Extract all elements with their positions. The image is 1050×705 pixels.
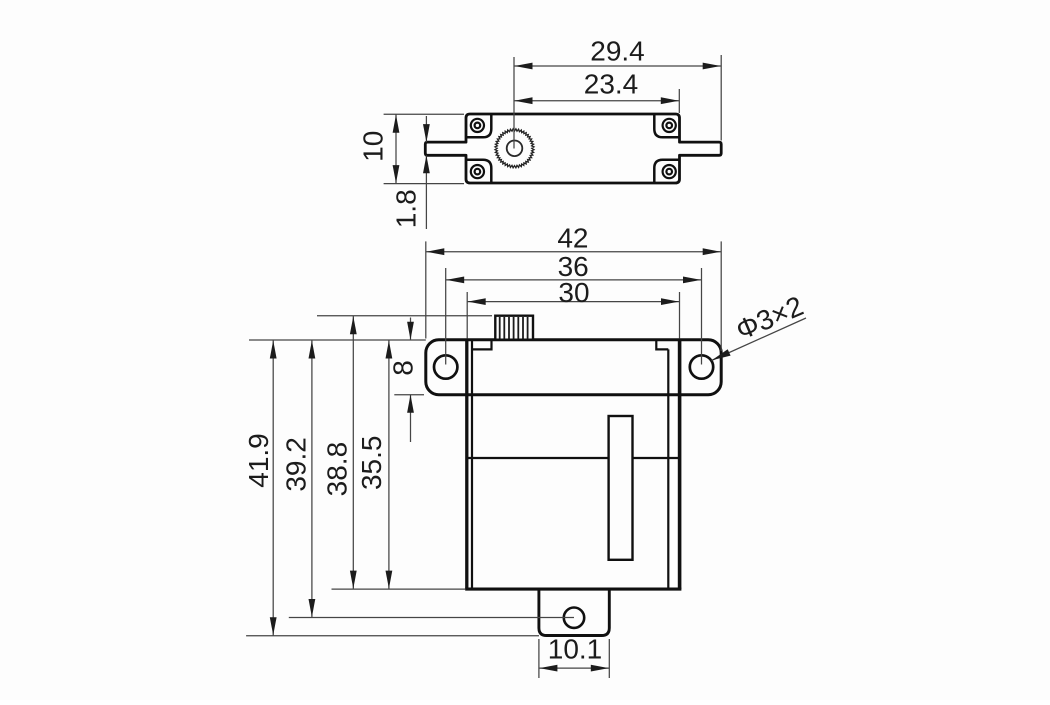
svg-text:29.4: 29.4 <box>590 36 645 67</box>
bottom-right screw boss pad <box>654 160 680 184</box>
dim 10 line <box>395 114 397 183</box>
dim 10 extension lines <box>384 113 464 115</box>
hole callout arrowhead <box>712 349 731 360</box>
dim 39.2 arrows <box>309 341 316 359</box>
output spline toothed circle <box>495 129 534 168</box>
dim 8 line upper <box>410 318 412 340</box>
front view: case left outer edge <box>465 340 468 589</box>
dim 8 extension line flange-bottom <box>394 394 424 396</box>
top-left screw boss pad <box>466 114 492 138</box>
dim 10.1 line <box>539 667 609 669</box>
front view: case left inner seam line <box>471 340 473 589</box>
front view: case right outer edge <box>678 340 682 589</box>
front view: case middle seam line <box>467 457 680 459</box>
spline center line <box>513 57 515 149</box>
dim 42 arrows <box>426 248 444 255</box>
svg-text:Φ3×2: Φ3×2 <box>731 290 807 346</box>
dim 1.8 line upper <box>425 116 427 142</box>
front view: right top notch <box>656 340 668 350</box>
dim 23.4 arrows <box>515 97 533 104</box>
svg-text:10.1: 10.1 <box>548 634 603 665</box>
front view: splined output shaft block <box>495 316 533 340</box>
ext line case bottom <box>332 588 466 590</box>
dim 41.9 arrows <box>270 341 277 359</box>
svg-text:10: 10 <box>358 131 389 162</box>
dim 36 extension lines <box>445 268 447 365</box>
ext line top of case (y=340) <box>249 339 426 341</box>
dim 39.2 line <box>311 340 313 618</box>
dim 8 arrow lower <box>407 395 414 413</box>
dim 42 line <box>426 251 721 253</box>
svg-text:1.8: 1.8 <box>391 189 422 228</box>
top-right screw boss pad <box>654 114 680 138</box>
dim 10.1 arrows <box>539 665 557 672</box>
dim 30 line <box>467 301 679 303</box>
dim 29.4 line <box>514 65 721 67</box>
ext line tab hole center <box>289 617 574 619</box>
dim 42 extension lines <box>425 241 427 338</box>
dim 8 extension line shaft-top <box>317 315 492 317</box>
top view: servo case body outline with left/right mounting tabs <box>425 114 721 183</box>
svg-text:39.2: 39.2 <box>281 437 312 492</box>
dim 23.4 line <box>514 100 679 102</box>
dim 30 arrows <box>468 298 486 305</box>
svg-text:42: 42 <box>557 222 588 253</box>
dim 10 arrows <box>393 115 400 133</box>
front view: left flange screw hole <box>434 355 457 378</box>
front view: bottom mounting tab <box>539 588 609 636</box>
dim 35.5 arrows <box>386 341 393 359</box>
svg-text:8: 8 <box>388 360 419 376</box>
dim 38.8 line <box>352 316 354 589</box>
dim 1.8 arrow lower <box>423 155 430 173</box>
bottom-left screw hole <box>471 165 484 178</box>
dim 35.5 line <box>388 340 390 589</box>
dim 29.4 arrows <box>515 63 533 70</box>
top-right screw hole <box>663 119 676 132</box>
dim 41.9 line <box>272 340 274 636</box>
front view: right flange screw hole <box>690 355 713 378</box>
dim 36 line <box>446 279 702 281</box>
svg-text:30: 30 <box>558 277 589 308</box>
front view: case bottom edge <box>465 588 681 591</box>
dim 23.4 extension line right <box>678 89 680 113</box>
top-left screw hole <box>471 119 484 132</box>
front view: case right inner seam line <box>667 349 669 589</box>
dim 10.1 extension lines <box>538 639 540 678</box>
dim 36 arrows <box>446 277 464 284</box>
dim 8 arrow upper <box>407 322 414 340</box>
front view: mounting flange <box>426 340 721 395</box>
dim 38.8 arrows <box>350 316 357 334</box>
dim 8 line lower <box>410 395 412 442</box>
dim 1.8 arrow upper <box>423 124 430 142</box>
svg-text:38.8: 38.8 <box>321 442 352 497</box>
front view: bottom tab hole <box>564 608 584 628</box>
dim 1.8 line lower <box>425 155 427 229</box>
bottom-right screw hole <box>663 165 676 178</box>
front view: side slot <box>609 416 633 560</box>
hole callout leader line <box>712 318 807 361</box>
dim 30 extension lines <box>466 292 468 339</box>
svg-text:41.9: 41.9 <box>243 433 274 488</box>
bottom-left screw boss pad <box>466 160 492 184</box>
dim 29.4 extension line right <box>720 55 722 141</box>
front view: left top notch <box>472 340 492 350</box>
svg-text:35.5: 35.5 <box>356 436 387 491</box>
ext line tab bottom <box>246 635 539 637</box>
output spline inner circle <box>507 141 523 157</box>
svg-text:23.4: 23.4 <box>584 68 639 99</box>
